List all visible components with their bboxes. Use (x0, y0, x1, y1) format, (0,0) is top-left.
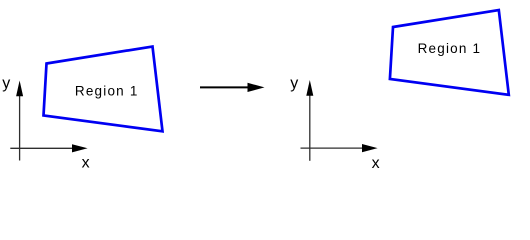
right x-axis wire (301, 147, 365, 149)
right y-axis arrowhead (306, 80, 313, 96)
svg-text:y: y (2, 75, 10, 92)
right region quadrilateral (390, 10, 509, 95)
left region quadrilateral (44, 47, 163, 132)
left y-axis wire (19, 92, 21, 161)
mapping arrow arrowhead (248, 83, 265, 92)
svg-text:x: x (372, 155, 380, 172)
mapping arrow shaft (200, 86, 250, 88)
svg-text:x: x (82, 155, 90, 172)
left x-axis arrowhead (72, 144, 88, 152)
svg-text:Region 1: Region 1 (75, 83, 139, 98)
left y-axis arrowhead (16, 81, 23, 97)
svg-text:Region 1: Region 1 (418, 41, 482, 56)
left x-axis wire (10, 147, 74, 149)
right y-axis wire (309, 92, 311, 161)
right x-axis arrowhead (362, 144, 378, 152)
svg-text:y: y (290, 75, 298, 92)
